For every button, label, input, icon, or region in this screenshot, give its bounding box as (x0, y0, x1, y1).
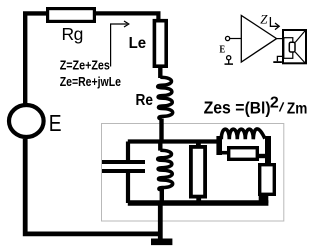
svg-text:Zm: Zm (287, 101, 307, 118)
wire stub left of horizontal resistor (219, 151, 228, 155)
resistor right (vertical) (260, 165, 275, 195)
wire input lead (230, 38, 242, 40)
wire right resistor to bottom rail (259, 195, 269, 203)
op-amp triangle (241, 15, 276, 62)
speaker voice coil rect (289, 42, 295, 52)
svg-text:Z: Z (260, 11, 268, 26)
resistor mid (vertical) (191, 147, 205, 197)
inductor in box (coil) (158, 141, 162, 151)
lower terminal stem (228, 60, 230, 64)
capacitor bottom plate (102, 169, 145, 173)
svg-text:E: E (219, 43, 225, 55)
svg-text:Le: Le (129, 35, 147, 52)
wire Rg to top-right corner down to Le (96, 13, 159, 19)
resistor Rg (48, 9, 95, 22)
wire right riser (265, 136, 271, 165)
arrow Z out (270, 17, 278, 26)
impedance arrow Z (111, 24, 127, 67)
Zm box (gray border) (102, 124, 284, 222)
inductor top (horizontal coil) (221, 129, 265, 139)
wire Le to Re (158, 66, 162, 78)
svg-text:E: E (49, 110, 62, 136)
inductor Le (rect) (154, 21, 166, 66)
svg-text:Re: Re (136, 92, 154, 109)
wire E bottom, bottom run to node (25, 139, 162, 234)
lower terminal bar (225, 63, 234, 65)
speaker driver frame rect (284, 38, 293, 59)
ground bar (151, 239, 172, 246)
svg-text:Z=Ze+Zes: Z=Ze+Zes (60, 57, 110, 72)
resistor horizontal (229, 148, 258, 160)
wire box top rail (128, 139, 222, 143)
wire mid resistor bottom stub (196, 197, 201, 203)
wire capacitor lower stub (126, 172, 130, 203)
wire Re to box top node (159, 119, 163, 144)
svg-text:Ze=Re+jwLe: Ze=Re+jwLe (60, 74, 121, 89)
wire box bottom rail (128, 200, 269, 205)
svg-text:Zes =: Zes = (204, 97, 245, 117)
wire mid resistor top stub (196, 141, 201, 146)
wire coil to bottom rail (160, 188, 164, 203)
wire into speaker (277, 38, 285, 40)
input terminal circle (226, 36, 230, 40)
wire capacitor riser (126, 142, 130, 162)
capacitor top plate (102, 160, 145, 164)
resistor Re (coil) (158, 77, 173, 119)
wire riser to RL group (216, 136, 222, 155)
speaker ground (277, 56, 283, 61)
wire main drop to ground (158, 203, 163, 243)
wire stub right of horizontal resistor (258, 154, 266, 158)
svg-text:Rg: Rg (62, 24, 84, 44)
speaker cone lines (295, 31, 305, 63)
svg-text:2: 2 (270, 95, 279, 112)
lower terminal circle (227, 56, 231, 60)
svg-text:(Bl): (Bl) (245, 100, 271, 118)
wire top-left (left vertical + top run to Rg) (25, 13, 46, 103)
source E circle (9, 105, 44, 137)
speaker cabinet box (283, 30, 306, 63)
